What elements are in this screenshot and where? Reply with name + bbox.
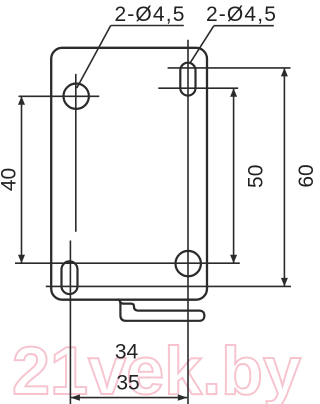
- svg-text:2-Ø4,5: 2-Ø4,5: [206, 3, 277, 26]
- hook tab below plate: [118, 299, 205, 321]
- centerline: right column vertical (slot + circle): [187, 40, 189, 404]
- hole: bottom-left slot: [62, 261, 78, 294]
- leader 1 diagonal to top-left circle: [77, 26, 111, 89]
- arrow bottom-right (points right at circle centerline): [178, 394, 188, 400]
- arrow 50 bottom: [230, 255, 237, 264]
- dimension line 40: [21, 96, 23, 263]
- extension line for 60 (bottom, through bottom-left slot): [46, 285, 291, 287]
- svg-text:2-Ø4,5: 2-Ø4,5: [114, 3, 185, 26]
- extension line for 50 (top): [158, 87, 238, 89]
- dimension line 60: [283, 68, 285, 287]
- arrow 60 bottom: [281, 278, 288, 287]
- dimension line 34 (bottom): [70, 397, 187, 399]
- arrow 50 top: [230, 88, 237, 97]
- extension line through bottom-right circle (40/50 bottom): [15, 262, 240, 264]
- hole: top-left circle: [63, 84, 88, 109]
- arrow bottom-left (points left at slot centerline): [70, 394, 80, 400]
- dimension line 50: [233, 88, 235, 263]
- hole: top-right slot: [180, 63, 195, 96]
- centerline: top-left circle vertical: [75, 74, 77, 232]
- centerline: bottom-left slot vertical: [69, 241, 71, 404]
- plate outline: [51, 48, 207, 300]
- leader 1 shelf: [111, 25, 184, 27]
- svg-text:35: 35: [116, 372, 139, 395]
- leader 2 shelf: [214, 25, 274, 27]
- leader 2 diagonal to top-right slot: [190, 26, 214, 63]
- hole: bottom-right circle: [176, 251, 201, 276]
- svg-text:34: 34: [115, 341, 139, 364]
- svg-text:60: 60: [295, 164, 314, 187]
- svg-text:40: 40: [0, 168, 21, 191]
- extension line for 60 (top): [168, 67, 291, 69]
- arrow 60 top: [281, 68, 288, 77]
- arrow 40 top: [18, 96, 25, 105]
- svg-text:21vek.by: 21vek.by: [12, 333, 301, 404]
- centerline: top-left circle horizontal / 40-dim extension: [19, 95, 100, 97]
- arrow 40 bottom: [18, 255, 25, 264]
- svg-text:50: 50: [244, 165, 267, 188]
